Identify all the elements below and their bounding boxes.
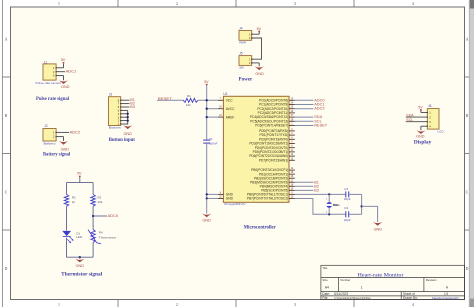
- note Thermistor signal: [61, 272, 103, 277]
- svg-text:ADC1: ADC1: [66, 68, 77, 73]
- capacitor C2 22pF: [344, 187, 351, 201]
- svg-text:ADC0: ADC0: [108, 213, 119, 218]
- ground (battery): [59, 141, 69, 151]
- connector J5 power switch: [239, 52, 252, 70]
- ground (pulse sensor): [59, 80, 70, 89]
- wires PC0-PC2 to ADC nets: [295, 100, 314, 108]
- net label SCL (display): [406, 118, 413, 122]
- svg-text:Size: Size: [322, 278, 328, 282]
- junction bottom rail: [79, 256, 81, 259]
- svg-text:1: 1: [58, 303, 60, 307]
- ground (crystal): [373, 222, 382, 232]
- svg-text:GND: GND: [123, 132, 132, 136]
- wire J5 pin2 to GND: [252, 63, 260, 66]
- svg-text:J6: J6: [428, 104, 432, 108]
- wire rail to AREF pin: [206, 116, 218, 118]
- connector J1 Pulse rate sensor: [36, 60, 62, 85]
- resistor R2 1k: [64, 194, 76, 206]
- svg-text:GND: GND: [416, 135, 425, 139]
- svg-text:3: 3: [294, 303, 296, 307]
- svg-text:AREF: AREF: [226, 115, 235, 119]
- svg-text:RESET: RESET: [314, 123, 328, 128]
- wires PB3-PB5 to button nets: [295, 182, 314, 190]
- wire J6 pin4 to GND: [421, 126, 427, 130]
- wire to ground (MCU): [206, 198, 208, 213]
- svg-text:D: D: [466, 267, 469, 271]
- svg-text:100nF: 100nF: [209, 141, 218, 145]
- svg-text:B: B: [466, 114, 469, 118]
- svg-text:PD7(PCINT23/AIN1): PD7(PCINT23/AIN1): [259, 158, 288, 162]
- svg-text:4: 4: [412, 303, 414, 307]
- connector J6 LCD: [427, 104, 444, 133]
- svg-text:Title: Title: [322, 266, 328, 270]
- net labels SDA SCL RESET: [314, 114, 328, 127]
- svg-text:J2: J2: [44, 124, 48, 128]
- svg-text:GND: GND: [61, 147, 70, 151]
- note Pulse rate signal: [36, 97, 70, 102]
- resistor R3 10k: [91, 194, 103, 206]
- svg-text:Pulse rate sensor: Pulse rate sensor: [36, 81, 62, 85]
- svg-text:22pF: 22pF: [344, 197, 351, 201]
- wire rail lower to GND pins: [206, 143, 208, 198]
- svg-text:5V: 5V: [204, 80, 209, 84]
- svg-text:Battery: Battery: [44, 141, 57, 145]
- svg-text:ATmega328P-PU: ATmega328P-PU: [224, 202, 246, 206]
- svg-text:R2: R2: [72, 195, 76, 199]
- net label RESET (left): [158, 96, 173, 101]
- net labels B1 B2 B3 (MCU): [314, 180, 319, 192]
- wire J4 pin1 to 5V: [252, 32, 260, 35]
- svg-text:1: 1: [361, 285, 363, 289]
- note Power: [239, 77, 253, 82]
- svg-text:10k: 10k: [186, 103, 191, 107]
- resistor R1 10k: [183, 94, 198, 107]
- svg-text:Kaneda Kasebayashi: Kaneda Kasebayashi: [432, 296, 459, 300]
- svg-text:PWR: PWR: [239, 40, 246, 44]
- svg-text:5V: 5V: [61, 58, 66, 62]
- svg-text:C1: C1: [209, 137, 213, 141]
- svg-text:Buttons: Buttons: [109, 126, 122, 130]
- wires PC4-PC6 to nets: [295, 117, 314, 125]
- svg-text:SDA: SDA: [406, 114, 414, 118]
- title block: [321, 265, 465, 300]
- svg-text:5V: 5V: [418, 105, 423, 109]
- svg-text:3: 3: [294, 2, 296, 6]
- svg-text:R1: R1: [187, 94, 191, 98]
- svg-text:ADC2: ADC2: [70, 129, 81, 134]
- capacitor C3 22pF: [344, 206, 351, 222]
- wire thermistor top rail: [67, 178, 94, 183]
- svg-text:J1: J1: [44, 60, 48, 64]
- power 5V (MCU rail): [204, 80, 209, 86]
- net label ADC2: [70, 129, 81, 134]
- svg-text:A4: A4: [325, 285, 329, 289]
- svg-text:PB7(PCINT7/XTAL2/TOSC2): PB7(PCINT7/XTAL2/TOSC2): [247, 197, 288, 201]
- svg-text:C:\Users\admin\Sheet1.SchDoc: C:\Users\admin\Sheet1.SchDoc: [334, 296, 371, 300]
- svg-text:Pulse rate signal: Pulse rate signal: [36, 97, 70, 102]
- ground (thermistor): [75, 259, 84, 268]
- wires to GND pins: [206, 193, 218, 199]
- connector J3 Buttons: [109, 93, 122, 130]
- net label SDA (display): [406, 114, 414, 118]
- svg-text:SCL: SCL: [406, 118, 413, 122]
- wire crystal right leg: [361, 194, 363, 214]
- svg-text:GND: GND: [226, 197, 234, 201]
- svg-text:C3: C3: [344, 206, 348, 210]
- svg-text:Battery signal: Battery signal: [43, 152, 71, 157]
- wire J3 pins 5-1 common: [121, 110, 128, 124]
- svg-text:D: D: [5, 267, 8, 271]
- wire J6 pin3 SCL: [406, 121, 428, 123]
- svg-text:2: 2: [176, 303, 178, 307]
- svg-text:Power: Power: [239, 77, 253, 82]
- connector J4 power in: [239, 27, 252, 45]
- svg-text:A: A: [5, 38, 8, 42]
- wire D1 to bottom rail: [66, 238, 68, 258]
- svg-text:AVCC: AVCC: [226, 107, 235, 111]
- svg-text:5/14/2023: 5/14/2023: [334, 292, 348, 296]
- LED D1: [62, 231, 83, 243]
- wire RESET to R1: [157, 99, 184, 101]
- svg-text:File:: File:: [322, 296, 328, 300]
- svg-text:1k: 1k: [72, 200, 76, 204]
- net label ADC0 (thermistor): [108, 213, 119, 218]
- power 5V (power input): [257, 27, 262, 33]
- svg-text:Heart-rate Monitor: Heart-rate Monitor: [358, 272, 404, 278]
- junction rail-VCC: [206, 99, 208, 101]
- ground (power): [255, 66, 264, 76]
- svg-text:GND: GND: [374, 227, 383, 231]
- svg-text:PC6(PCINT14/RESET): PC6(PCINT14/RESET): [255, 124, 288, 128]
- wire to R3: [92, 183, 94, 195]
- svg-text:1: 1: [58, 2, 60, 6]
- svg-text:8MHz: 8MHz: [333, 203, 340, 207]
- svg-text:J4: J4: [239, 27, 243, 31]
- wire XTAL2 rail: [295, 198, 362, 214]
- svg-text:5V: 5V: [257, 27, 262, 31]
- svg-text:Drawn By:: Drawn By:: [403, 296, 418, 300]
- svg-text:Number: Number: [340, 278, 350, 282]
- svg-text:C: C: [466, 191, 469, 195]
- svg-text:R3: R3: [97, 195, 101, 199]
- svg-text:Microcontroller: Microcontroller: [244, 226, 277, 231]
- svg-text:LCD: LCD: [438, 130, 444, 134]
- power 5V (pulse sensor): [61, 58, 66, 64]
- svg-text:GND: GND: [76, 264, 85, 268]
- wire 5V rail upper: [206, 86, 208, 141]
- wire node to ADC0 label: [92, 215, 107, 217]
- svg-text:Display: Display: [414, 141, 432, 146]
- wire J6 pin2 SDA: [406, 116, 428, 118]
- wire XTAL1 rail: [295, 193, 362, 195]
- svg-text:5V: 5V: [77, 172, 82, 176]
- ground (buttons): [123, 125, 132, 136]
- junctions button common: [127, 113, 129, 122]
- svg-text:Button input: Button input: [109, 138, 136, 143]
- svg-text:22pF: 22pF: [344, 218, 351, 222]
- svg-text:U1: U1: [223, 92, 227, 96]
- wire thermistor bottom rail: [67, 256, 94, 258]
- wire J1 pin1 to 5V: [56, 64, 63, 68]
- svg-text:GND: GND: [202, 219, 211, 223]
- svg-text:J3: J3: [109, 93, 113, 97]
- note Microcontroller: [244, 226, 277, 231]
- wire R4 to bottom rail: [92, 243, 94, 258]
- ground (display): [416, 130, 425, 138]
- wire R2 to D1: [66, 206, 68, 230]
- wire R3 to node ADC0: [92, 206, 94, 229]
- capacitor C1 100nF: [203, 137, 217, 146]
- ground (MCU): [202, 214, 211, 223]
- note Display: [414, 141, 432, 146]
- svg-text:10k: 10k: [97, 200, 102, 204]
- svg-text:J5: J5: [239, 52, 243, 56]
- wire to R2: [66, 183, 68, 195]
- svg-text:ADC2: ADC2: [314, 106, 324, 111]
- power 5V (display): [418, 105, 423, 111]
- note Battery signal: [43, 152, 71, 157]
- svg-text:4: 4: [412, 2, 414, 6]
- svg-text:B: B: [5, 114, 8, 118]
- svg-text:B3: B3: [130, 105, 135, 109]
- svg-text:B3: B3: [314, 188, 319, 192]
- svg-text:R4: R4: [99, 231, 103, 235]
- power 5V (thermistor): [77, 172, 82, 178]
- svg-text:VCC: VCC: [226, 99, 233, 103]
- svg-text:RESET: RESET: [158, 96, 173, 101]
- wire rail to AVCC pin: [206, 108, 218, 110]
- wire R1 to VCC pin: [198, 99, 218, 101]
- net labels B1 B2 B3: [130, 98, 135, 109]
- svg-text:C2: C2: [344, 187, 348, 191]
- wire J2 pin1 to ADC2: [56, 131, 69, 133]
- wire to crystal ground: [360, 205, 377, 222]
- svg-text:GND: GND: [61, 85, 70, 89]
- connector J2 Battery: [43, 124, 57, 145]
- wire J6 pin1 to 5V: [421, 110, 427, 113]
- svg-text:2: 2: [176, 2, 178, 6]
- wire J1 pin3 to GND: [56, 76, 63, 81]
- svg-text:SW: SW: [239, 66, 244, 70]
- junctions crystal: [328, 193, 330, 215]
- net label ADC1: [66, 68, 77, 73]
- net labels ADC0 ADC1 ADC2: [314, 97, 325, 110]
- svg-text:Thermistor: Thermistor: [99, 235, 117, 239]
- note Button input: [109, 138, 136, 143]
- crystal Y1 8MHz: [326, 194, 340, 214]
- microcontroller U1 ATmega328P-PU: [218, 92, 295, 206]
- svg-text:A: A: [466, 38, 469, 42]
- svg-text:LED: LED: [76, 235, 83, 239]
- wire J4 pin2 to J5 pin1: [252, 38, 262, 59]
- svg-text:GND: GND: [255, 72, 264, 76]
- wire J2 pin2 to GND: [56, 137, 63, 141]
- svg-text:Thermistor signal: Thermistor signal: [61, 272, 103, 277]
- wire J1 pin2 to ADC1: [56, 71, 65, 73]
- wires J3 pins 8-6 to nets: [121, 100, 130, 107]
- svg-text:Revision: Revision: [426, 278, 437, 282]
- thermistor R4: [88, 230, 116, 244]
- svg-text:C: C: [5, 191, 8, 195]
